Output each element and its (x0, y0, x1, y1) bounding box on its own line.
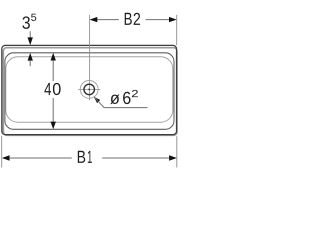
40 dimension line upper part with up arrowhead (51, 53, 56, 61)
drain hole crosshair vertical / B2 extension line (89, 15, 91, 100)
B1 right arrowhead (169, 155, 177, 160)
drain hole center dot (88, 89, 90, 91)
B2 left arrowhead (90, 17, 98, 22)
drain diameter label (110, 92, 130, 104)
washbasin outer contour (2, 45, 177, 134)
40 label (44, 83, 60, 95)
B1 left extension line (1, 136, 3, 168)
3.5 lower up arrowhead with tail (28, 53, 33, 61)
B2 dimension line (97, 19, 119, 21)
B2 right extension line (176, 15, 178, 45)
B1 dimension line (10, 157, 72, 159)
B1 left arrowhead (2, 155, 10, 160)
drain leader line (94, 97, 148, 108)
drain hole inner circle (84, 84, 95, 95)
drain hole crosshair horizontal (78, 88, 100, 90)
washbasin bowl opening rim (5, 53, 174, 130)
B1 label (78, 151, 92, 163)
3.5 dimension label (22, 16, 30, 29)
washbasin outer edge shadow line (3, 48, 177, 136)
B1 right extension line (176, 136, 178, 167)
40 dimension line lower part with down arrowhead (52, 98, 54, 122)
drain hole outer circle (80, 81, 98, 99)
B2 right arrowhead (169, 17, 177, 22)
drain leader arrowhead (94, 97, 101, 104)
washbasin bowl bottom contour (6, 57, 173, 122)
B2 label (125, 13, 140, 25)
3.5 upper dimension line with down arrowhead (29, 31, 31, 37)
